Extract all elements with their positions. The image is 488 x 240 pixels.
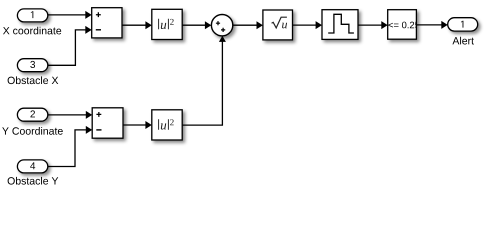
wire squared Y up to round sum — [182, 36, 226, 125]
wire squared X to round sum — [182, 21, 211, 29]
wire inport4 to sum Y minus — [48, 126, 92, 167]
sqrt block — [263, 10, 293, 40]
wire sqrt to stair — [293, 21, 323, 29]
inport 1 — [17, 9, 47, 22]
label Obstacle Y — [8, 177, 59, 185]
wire stair to compare — [358, 21, 388, 29]
label Alert — [452, 37, 473, 45]
compare to constant block <= 0.25 — [388, 10, 420, 40]
wire inport1 to sum X — [48, 11, 92, 19]
round sum junction — [211, 15, 232, 36]
wire round sum to sqrt — [233, 21, 263, 29]
inport 3 — [17, 59, 47, 72]
wire inport3 to sum X minus — [48, 26, 92, 65]
discrete stair block — [322, 10, 358, 40]
label Obstacle X — [8, 76, 59, 84]
sum block Subtract Y — [92, 108, 123, 138]
inport 4 — [17, 160, 47, 173]
inport 2 — [17, 108, 47, 121]
wire inport2 to sum Y — [48, 111, 92, 119]
wire compare to outport — [416, 21, 447, 29]
wire sum X to squared X — [122, 21, 152, 29]
sum block Subtract X — [92, 8, 122, 38]
wire sum Y to squared Y — [123, 121, 152, 129]
math function block |u|^2 (Y) — [152, 110, 182, 140]
outport 1 Alert — [448, 18, 478, 31]
label X coordinate — [3, 27, 61, 35]
math function block |u|^2 (X) — [152, 9, 182, 39]
label Y Coordinate — [2, 127, 63, 135]
